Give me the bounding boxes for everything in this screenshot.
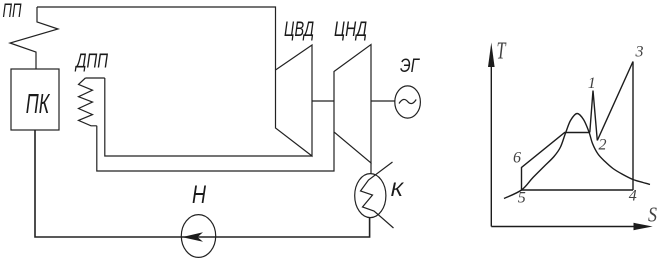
condenser K cooling water line xyxy=(361,162,394,228)
svg-text:S: S xyxy=(648,203,657,227)
wire: shaft CVD-CND xyxy=(312,100,334,102)
wire: main steam line from superheater to HP turbine inlet xyxy=(37,7,276,70)
pump N ellipse xyxy=(181,215,215,258)
reheater DPP zigzag xyxy=(79,78,97,126)
TS saturation dome xyxy=(504,113,650,198)
svg-text:T: T xyxy=(497,39,507,65)
TS reheat line 2-3 xyxy=(597,62,633,141)
svg-text:ЦНД: ЦНД xyxy=(334,18,367,41)
TS expansion 3-4 xyxy=(632,62,634,191)
condenser K ellipse xyxy=(355,174,386,218)
LP turbine CND xyxy=(334,45,371,164)
svg-text:ЭГ: ЭГ xyxy=(400,55,420,77)
generator EG circle xyxy=(395,86,421,118)
svg-text:ЦВД: ЦВД xyxy=(284,18,314,41)
wire: CVD exhaust to reheater inlet xyxy=(105,78,312,156)
wire: CND exhaust to condenser xyxy=(370,163,372,174)
TS condensation 4-5 xyxy=(522,189,634,191)
svg-text:5: 5 xyxy=(518,190,526,207)
svg-text:ПК: ПК xyxy=(26,88,50,119)
superheater PP zigzag xyxy=(10,7,58,69)
TS superheat spike to 1 and expansion to 2 xyxy=(590,91,598,141)
svg-text:6: 6 xyxy=(513,149,521,166)
wire: reheater outlet to LP turbine inlet xyxy=(97,126,334,171)
svg-text:ДПП: ДПП xyxy=(75,51,109,73)
svg-text:К: К xyxy=(391,180,406,201)
wire: shaft CND-generator xyxy=(371,100,395,102)
svg-text:ПП: ПП xyxy=(3,1,22,22)
HP turbine CVD xyxy=(276,45,313,156)
reheater DPP top link xyxy=(85,77,104,79)
svg-text:3: 3 xyxy=(635,44,644,61)
TS cycle 5-6-evaporation xyxy=(522,133,590,191)
wire: feedwater line from boiler down and bottom run to condenser xyxy=(35,130,370,237)
TS axis S arrowhead xyxy=(634,223,653,230)
TS axis T arrowhead xyxy=(488,43,495,68)
svg-text:1: 1 xyxy=(588,75,596,92)
boiler PK box xyxy=(11,69,59,130)
svg-text:Н: Н xyxy=(192,181,207,209)
TS axis S xyxy=(491,226,640,228)
pump N arrow xyxy=(182,232,203,242)
svg-text:2: 2 xyxy=(599,137,607,154)
TS axis T xyxy=(490,50,492,227)
svg-text:4: 4 xyxy=(629,188,637,205)
generator EG tilde xyxy=(399,99,416,103)
